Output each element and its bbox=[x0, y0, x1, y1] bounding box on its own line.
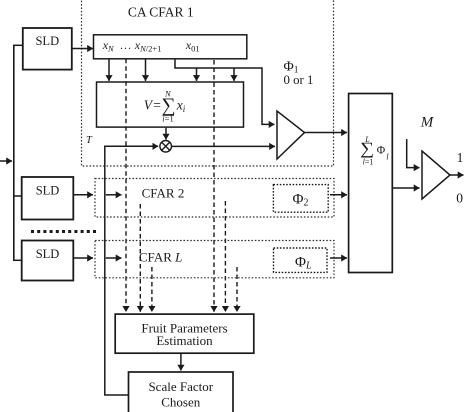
sum block bbox=[349, 94, 393, 273]
label 0 or 1 bbox=[284, 73, 314, 87]
tap arrow 2 into summer bbox=[145, 59, 147, 81]
block CFAR 2 dotted boundary bbox=[95, 179, 334, 218]
svg-text:i=1: i=1 bbox=[162, 114, 173, 124]
svg-text:CFAR 2: CFAR 2 bbox=[142, 185, 185, 200]
wire CFAR 2 to sum block bbox=[330, 194, 347, 196]
svg-text:Estimation: Estimation bbox=[156, 333, 213, 348]
svg-text:=: = bbox=[153, 98, 161, 113]
wire bus to SLD 1 bbox=[13, 44, 23, 46]
wire bus to SLD 3 bbox=[13, 259, 22, 261]
ellipsis dots between SLD 2 and SLD 3 bbox=[31, 230, 97, 233]
input arrow at left edge bbox=[0, 160, 12, 162]
block CA CFAR 1 dotted boundary bbox=[82, 0, 334, 166]
SLD box 1 bbox=[23, 28, 72, 70]
svg-text:SLD: SLD bbox=[36, 247, 60, 261]
label Phi 1 bbox=[284, 60, 299, 76]
dashed sample line 4 bbox=[224, 201, 226, 312]
svg-text:Chosen: Chosen bbox=[161, 394, 201, 409]
wire fruit parameters to scale factor bbox=[180, 353, 182, 370]
svg-text:SLD: SLD bbox=[36, 184, 60, 198]
svg-text:l=1: l=1 bbox=[363, 157, 374, 166]
tap arrow 4 into summer bbox=[233, 68, 235, 81]
tap arrow 3 into summer bbox=[196, 68, 198, 81]
svg-text:1: 1 bbox=[457, 150, 464, 165]
output arrow of comparator 2 bbox=[450, 174, 464, 176]
svg-text:L: L bbox=[364, 135, 370, 144]
wire SLD 1 to tapped delay line bbox=[72, 48, 93, 50]
comparator 2 bbox=[422, 151, 450, 199]
svg-text:CA CFAR 1: CA CFAR 1 bbox=[128, 5, 194, 20]
svg-text:CFAR L: CFAR L bbox=[139, 250, 182, 265]
T feedback wire from scale factor to multiplier bbox=[105, 146, 158, 395]
tap arrow 1 into summer bbox=[108, 59, 110, 81]
wire sum block to comparator 2 bbox=[392, 187, 419, 189]
label 0 bbox=[456, 190, 463, 205]
wire multiplier to comparator 1 bbox=[172, 145, 276, 147]
box Phi L bbox=[274, 248, 328, 272]
label CA CFAR 1 bbox=[128, 5, 194, 20]
wire bus to SLD 2 bbox=[13, 195, 22, 197]
wire V to multiplier bbox=[165, 128, 167, 140]
svg-text:SLD: SLD bbox=[35, 34, 59, 48]
SLD box 3 bbox=[22, 241, 74, 281]
arrow T into CFAR L bbox=[106, 257, 122, 259]
box Fruit Parameters Estimation bbox=[115, 314, 254, 353]
test cell bus wire bbox=[175, 59, 275, 125]
svg-text:…: … bbox=[120, 38, 132, 52]
dashed sample line 5 bbox=[151, 267, 153, 312]
label CFAR L bbox=[139, 250, 182, 265]
tapped delay line register bbox=[94, 35, 247, 59]
dashed sample line 6 bbox=[236, 267, 238, 312]
wire M to comparator 2 bbox=[407, 139, 420, 168]
label T bbox=[86, 135, 93, 146]
comparator 1 bbox=[277, 111, 305, 159]
label CFAR 2 bbox=[142, 185, 185, 200]
box Scale Factor Chosen bbox=[129, 372, 234, 412]
wire comparator 1 to sum block bbox=[305, 132, 348, 134]
svg-text:M: M bbox=[420, 114, 435, 130]
wire SLD 2 to CFAR 2 bbox=[73, 194, 93, 196]
multiplier bbox=[160, 141, 172, 153]
box Phi 2 bbox=[273, 185, 328, 213]
wire SLD 3 to CFAR L bbox=[73, 257, 93, 259]
dashed sample line 2 bbox=[213, 60, 215, 312]
svg-text:Scale Factor: Scale Factor bbox=[148, 379, 213, 394]
wire CFAR L to sum block bbox=[330, 257, 347, 259]
block CFAR L dotted boundary bbox=[95, 241, 334, 278]
svg-text:0: 0 bbox=[456, 190, 463, 205]
input bus vertical wire bbox=[13, 45, 15, 260]
dashed sample line 1 bbox=[125, 59, 127, 312]
SLD box 2 bbox=[22, 177, 74, 220]
label 1 bbox=[457, 150, 464, 165]
arrow T into CFAR 2 bbox=[106, 194, 122, 196]
label M bbox=[420, 114, 435, 130]
dashed sample line 3 bbox=[139, 204, 141, 312]
svg-text:0 or 1: 0 or 1 bbox=[284, 73, 314, 87]
summer box V bbox=[97, 82, 244, 127]
svg-text:Φ: Φ bbox=[377, 145, 386, 157]
